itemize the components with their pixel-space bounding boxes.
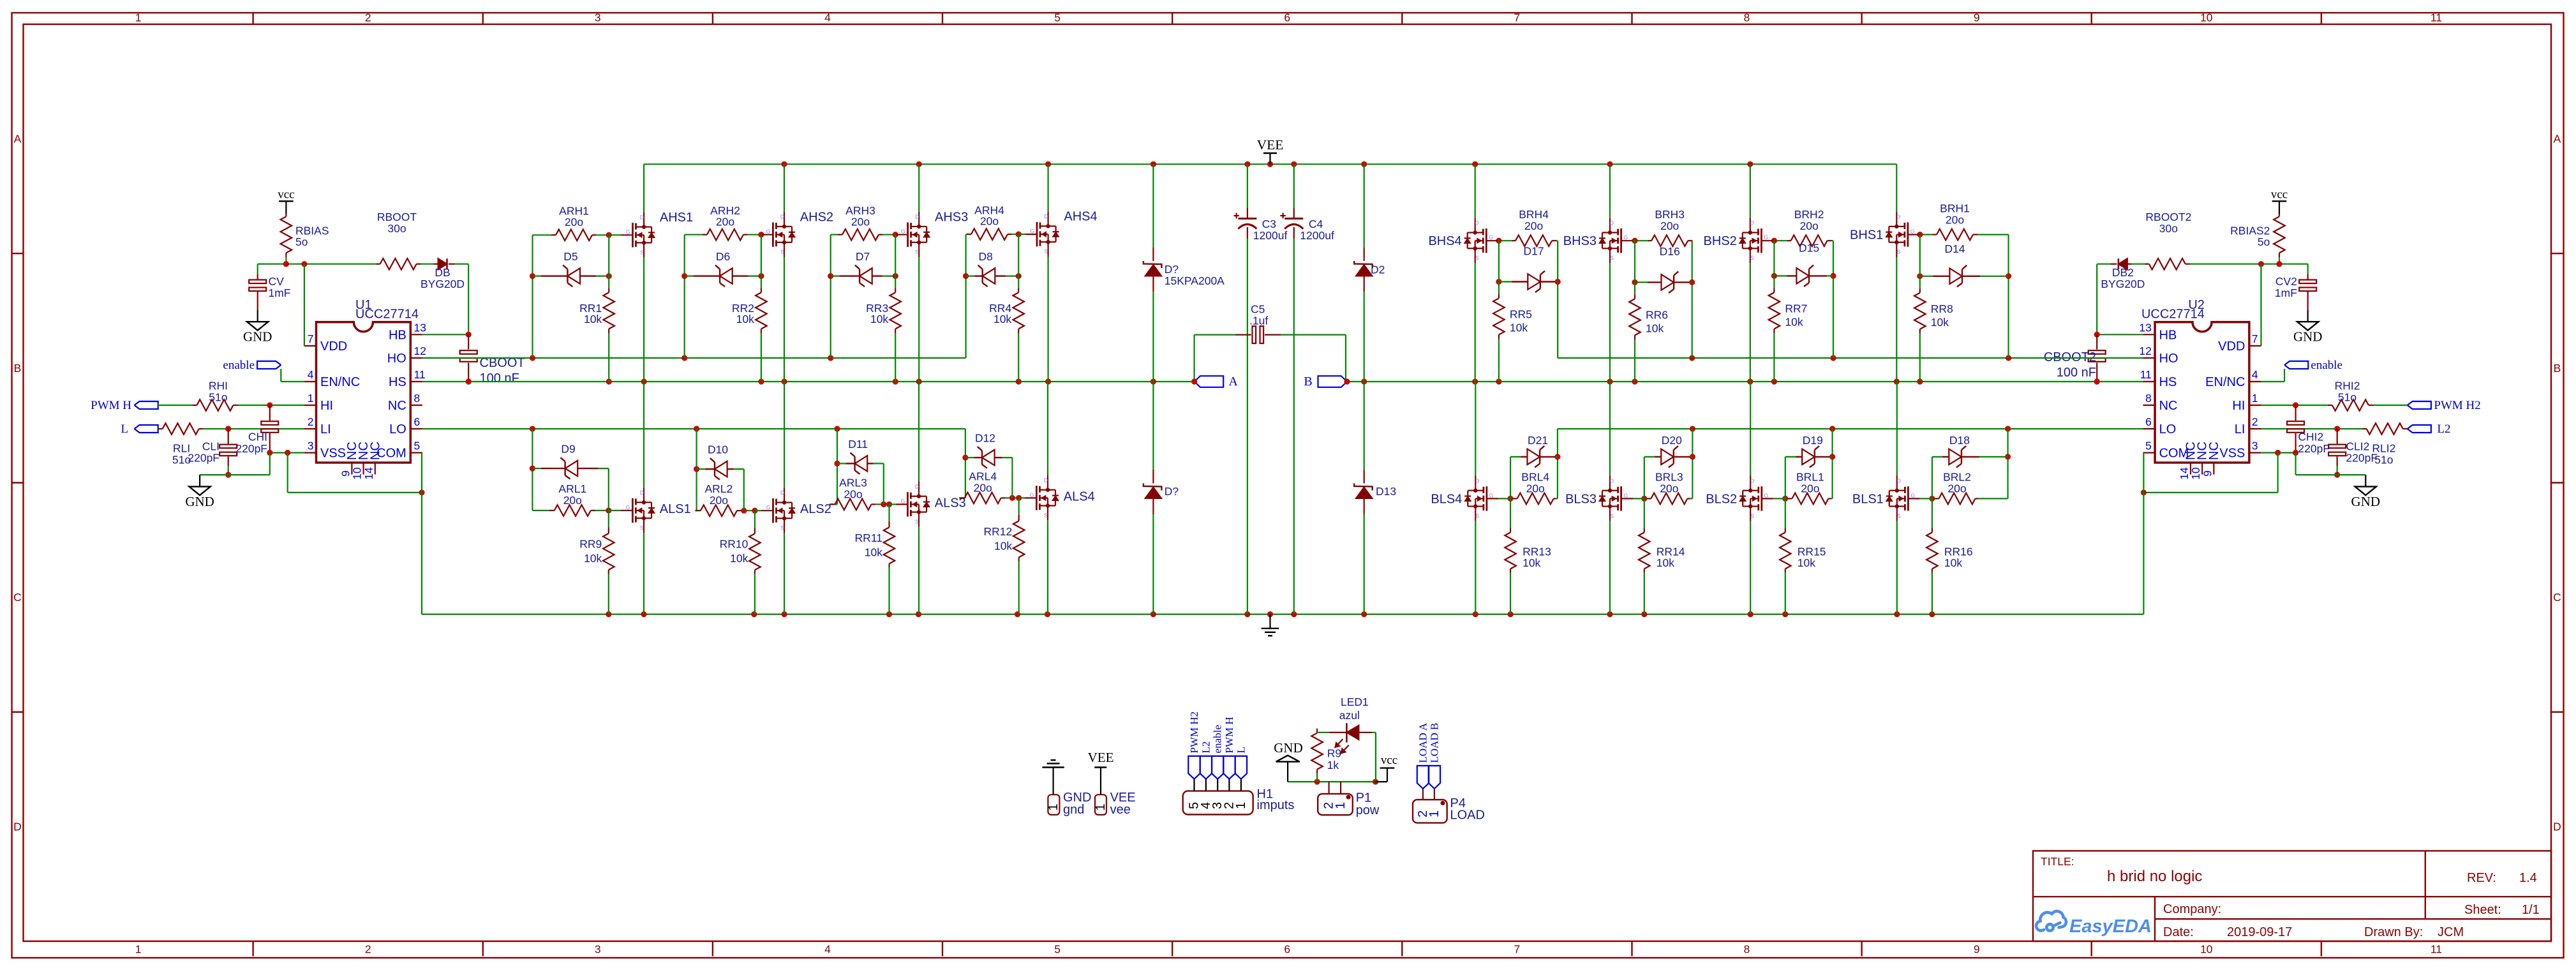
- svg-text:UCC27714: UCC27714: [2141, 308, 2205, 322]
- svg-text:G: G: [766, 504, 771, 510]
- svg-text:D: D: [915, 483, 919, 489]
- svg-text:10k: 10k: [1944, 556, 1962, 569]
- svg-text:1.4: 1.4: [2519, 871, 2537, 885]
- svg-text:RR11: RR11: [855, 532, 882, 544]
- svg-text:vcc: vcc: [1381, 754, 1397, 767]
- svg-text:10k: 10k: [1657, 556, 1674, 569]
- svg-text:C3: C3: [1262, 218, 1276, 230]
- svg-text:9: 9: [339, 470, 352, 477]
- svg-text:1: 1: [1334, 802, 1348, 809]
- svg-text:EN/NC: EN/NC: [2205, 375, 2245, 389]
- svg-text:GND: GND: [2351, 494, 2381, 509]
- svg-text:ALS2: ALS2: [800, 502, 831, 516]
- svg-text:azul: azul: [1339, 709, 1360, 722]
- svg-text:B: B: [2554, 362, 2561, 375]
- svg-text:G: G: [1489, 234, 1493, 241]
- svg-text:4: 4: [824, 943, 831, 956]
- svg-text:D: D: [2553, 820, 2561, 833]
- svg-text:220pF: 220pF: [188, 451, 220, 464]
- svg-text:G: G: [766, 228, 771, 235]
- svg-text:D5: D5: [563, 250, 577, 263]
- svg-text:2019-09-17: 2019-09-17: [2227, 925, 2292, 939]
- svg-text:D: D: [640, 489, 644, 496]
- svg-text:DB: DB: [435, 266, 450, 279]
- svg-text:S: S: [915, 249, 919, 255]
- svg-text:S: S: [1045, 248, 1048, 255]
- svg-text:RBOOT: RBOOT: [377, 211, 417, 223]
- svg-text:14: 14: [362, 467, 375, 480]
- svg-text:D: D: [1475, 477, 1479, 484]
- svg-text:L2: L2: [1200, 741, 1212, 754]
- svg-text:20o: 20o: [1947, 482, 1966, 495]
- svg-text:D7: D7: [856, 250, 870, 263]
- svg-text:13: 13: [2139, 321, 2151, 334]
- svg-text:D16: D16: [1660, 245, 1680, 258]
- svg-text:D: D: [780, 489, 784, 496]
- svg-text:1k: 1k: [1327, 759, 1339, 771]
- svg-text:enable: enable: [2311, 359, 2342, 372]
- svg-text:20o: 20o: [563, 494, 582, 507]
- svg-text:S: S: [640, 525, 644, 531]
- svg-text:HS: HS: [389, 375, 406, 389]
- svg-text:10k: 10k: [1646, 322, 1664, 334]
- svg-text:G: G: [1764, 492, 1769, 498]
- svg-text:C4: C4: [1309, 218, 1323, 230]
- svg-text:LOAD B: LOAD B: [1428, 723, 1440, 763]
- svg-text:D: D: [1610, 220, 1614, 226]
- svg-text:1: 1: [1046, 803, 1061, 810]
- svg-text:10: 10: [351, 467, 364, 480]
- svg-text:CHI: CHI: [248, 431, 267, 443]
- svg-text:10k: 10k: [584, 313, 602, 325]
- svg-text:Company:: Company:: [2163, 902, 2221, 916]
- svg-text:VSS: VSS: [320, 447, 346, 461]
- svg-text:PWM H: PWM H: [1223, 717, 1235, 753]
- svg-text:8: 8: [1744, 11, 1750, 24]
- svg-text:L: L: [1235, 747, 1247, 753]
- svg-text:S: S: [1897, 512, 1901, 519]
- svg-text:11: 11: [2140, 368, 2152, 381]
- svg-text:9: 9: [1974, 943, 1980, 956]
- svg-text:13: 13: [414, 321, 426, 334]
- svg-text:1: 1: [1094, 803, 1108, 810]
- svg-text:D17: D17: [1524, 244, 1544, 257]
- svg-text:D11: D11: [848, 438, 868, 450]
- svg-text:15KPA200A: 15KPA200A: [1165, 274, 1225, 287]
- svg-text:R9: R9: [1327, 747, 1341, 760]
- svg-text:BRH3: BRH3: [1655, 208, 1685, 221]
- svg-text:LOAD: LOAD: [1450, 808, 1485, 823]
- svg-text:1: 1: [1234, 802, 1248, 809]
- svg-text:20o: 20o: [565, 216, 583, 228]
- svg-text:RR7: RR7: [1785, 302, 1807, 315]
- svg-text:RR12: RR12: [983, 525, 1012, 538]
- svg-text:S: S: [1610, 512, 1614, 519]
- svg-text:D9: D9: [561, 443, 575, 456]
- svg-text:G: G: [1910, 228, 1915, 235]
- svg-text:D18: D18: [1949, 434, 1970, 447]
- svg-text:A: A: [2554, 133, 2561, 145]
- svg-text:D14: D14: [1944, 242, 1965, 255]
- svg-text:1mF: 1mF: [2275, 287, 2297, 299]
- svg-text:20o: 20o: [1946, 214, 1964, 227]
- svg-text:20o: 20o: [1660, 220, 1679, 232]
- svg-text:HI: HI: [320, 399, 333, 413]
- svg-text:7: 7: [1514, 943, 1521, 956]
- svg-text:1200uf: 1200uf: [1300, 229, 1334, 242]
- svg-text:LED1: LED1: [1341, 696, 1369, 708]
- svg-text:10k: 10k: [584, 552, 602, 565]
- svg-text:10k: 10k: [994, 313, 1011, 325]
- svg-text:20o: 20o: [1524, 220, 1543, 232]
- svg-text:3: 3: [595, 11, 601, 24]
- svg-text:8: 8: [1744, 943, 1750, 956]
- svg-text:RR8: RR8: [1931, 302, 1953, 315]
- svg-text:5o: 5o: [295, 235, 308, 248]
- svg-text:G: G: [1764, 234, 1768, 241]
- svg-text:S: S: [1475, 512, 1479, 519]
- svg-text:20o: 20o: [980, 215, 999, 228]
- svg-text:1200uf: 1200uf: [1253, 229, 1288, 242]
- svg-text:RBOOT2: RBOOT2: [2145, 211, 2191, 223]
- svg-text:D8: D8: [979, 250, 993, 263]
- svg-text:BRH4: BRH4: [1519, 208, 1549, 221]
- svg-text:AHS3: AHS3: [935, 210, 968, 224]
- svg-text:7: 7: [1514, 11, 1521, 24]
- svg-text:D: D: [1896, 214, 1900, 220]
- svg-text:D6: D6: [716, 250, 730, 263]
- svg-text:CHI2: CHI2: [2298, 431, 2323, 443]
- svg-text:S: S: [1044, 512, 1048, 518]
- svg-text:20o: 20o: [974, 481, 992, 494]
- svg-text:5: 5: [414, 440, 421, 452]
- svg-text:20o: 20o: [1801, 482, 1819, 495]
- svg-text:20o: 20o: [851, 215, 870, 228]
- svg-text:LOAD A: LOAD A: [1417, 722, 1429, 763]
- svg-text:10k: 10k: [1785, 315, 1803, 328]
- svg-text:2: 2: [365, 943, 371, 956]
- svg-text:C: C: [2553, 591, 2561, 604]
- svg-text:PWM H2: PWM H2: [1188, 711, 1200, 754]
- svg-text:4: 4: [824, 11, 831, 24]
- svg-text:TITLE:: TITLE:: [2041, 855, 2074, 868]
- svg-text:ARL4: ARL4: [969, 470, 997, 482]
- svg-text:51o: 51o: [2338, 391, 2356, 403]
- svg-text:7: 7: [2252, 332, 2258, 345]
- svg-text:RR6: RR6: [1646, 308, 1668, 321]
- svg-text:1/1: 1/1: [2522, 903, 2540, 917]
- svg-text:NC: NC: [2207, 442, 2221, 460]
- svg-text:HB: HB: [389, 328, 406, 342]
- svg-text:8: 8: [2145, 392, 2152, 405]
- svg-text:HS: HS: [2159, 375, 2177, 389]
- svg-text:30o: 30o: [2159, 222, 2178, 235]
- svg-text:B: B: [1304, 375, 1312, 389]
- svg-text:BRH1: BRH1: [1940, 202, 1970, 215]
- svg-text:20o: 20o: [710, 494, 728, 507]
- svg-text:G: G: [901, 228, 905, 235]
- svg-text:GND: GND: [2293, 329, 2323, 345]
- svg-text:GND: GND: [243, 329, 272, 345]
- svg-text:ARL1: ARL1: [558, 482, 586, 495]
- svg-text:G: G: [1030, 228, 1034, 234]
- svg-text:BRH2: BRH2: [1794, 208, 1824, 221]
- svg-text:11: 11: [414, 368, 426, 381]
- svg-text:S: S: [1750, 512, 1754, 519]
- svg-text:30o: 30o: [387, 222, 406, 235]
- svg-text:D12: D12: [975, 432, 995, 445]
- svg-text:8: 8: [414, 392, 421, 405]
- svg-text:Sheet:: Sheet:: [2464, 903, 2501, 917]
- svg-text:11: 11: [2431, 11, 2442, 24]
- svg-text:10k: 10k: [994, 539, 1012, 552]
- svg-text:6: 6: [1284, 943, 1290, 956]
- svg-text:D: D: [1610, 477, 1614, 484]
- svg-text:6: 6: [414, 415, 421, 428]
- svg-text:HO: HO: [387, 352, 406, 366]
- svg-text:BHS1: BHS1: [1850, 228, 1883, 242]
- svg-text:S: S: [1475, 255, 1479, 261]
- svg-text:NC: NC: [368, 442, 382, 460]
- svg-text:BRL1: BRL1: [1796, 470, 1824, 483]
- svg-text:11: 11: [2431, 943, 2442, 956]
- svg-text:LO: LO: [389, 422, 406, 436]
- svg-text:VSS: VSS: [2219, 447, 2245, 461]
- svg-text:h brid no logic: h brid no logic: [2107, 868, 2202, 885]
- svg-text:10: 10: [2189, 467, 2202, 480]
- svg-text:G: G: [626, 504, 630, 510]
- svg-text:1: 1: [2252, 392, 2258, 405]
- svg-text:14: 14: [2178, 467, 2191, 480]
- svg-text:CV2: CV2: [2275, 275, 2297, 288]
- svg-text:51o: 51o: [209, 391, 227, 403]
- svg-text:9: 9: [2201, 470, 2214, 477]
- svg-text:ARL3: ARL3: [839, 476, 867, 489]
- svg-text:220pF: 220pF: [2298, 442, 2330, 455]
- svg-text:AHS2: AHS2: [800, 210, 833, 224]
- svg-text:10k: 10k: [1798, 556, 1815, 569]
- svg-text:vee: vee: [1110, 803, 1131, 817]
- svg-text:20o: 20o: [1526, 482, 1545, 495]
- svg-text:LI: LI: [320, 422, 331, 436]
- svg-text:10k: 10k: [1523, 556, 1540, 569]
- svg-text:5: 5: [1054, 943, 1061, 956]
- svg-text:3: 3: [308, 440, 314, 452]
- svg-text:VDD: VDD: [2218, 339, 2245, 354]
- svg-text:D: D: [1045, 213, 1048, 220]
- svg-text:D21: D21: [1528, 434, 1548, 447]
- svg-text:imputs: imputs: [1257, 798, 1295, 812]
- svg-text:VDD: VDD: [320, 339, 347, 354]
- svg-text:1: 1: [135, 11, 142, 24]
- svg-text:S: S: [915, 518, 919, 525]
- svg-text:S: S: [780, 525, 784, 531]
- svg-text:10k: 10k: [1931, 316, 1949, 329]
- svg-text:2: 2: [365, 11, 371, 24]
- svg-text:G: G: [1489, 492, 1494, 498]
- svg-text:JCM: JCM: [2438, 925, 2464, 939]
- svg-text:S: S: [1610, 255, 1614, 261]
- svg-text:D: D: [1750, 220, 1754, 226]
- svg-text:100 nF: 100 nF: [2057, 366, 2096, 380]
- svg-text:enable: enable: [1212, 725, 1224, 753]
- svg-text:BLS2: BLS2: [1706, 492, 1737, 506]
- svg-text:Drawn By:: Drawn By:: [2364, 925, 2423, 939]
- svg-text:20o: 20o: [1799, 220, 1818, 232]
- svg-text:D2: D2: [1371, 264, 1385, 276]
- svg-text:A: A: [1228, 375, 1238, 389]
- svg-text:vcc: vcc: [278, 188, 294, 201]
- svg-text:HB: HB: [2159, 328, 2177, 342]
- svg-text:5o: 5o: [2258, 235, 2270, 248]
- svg-text:VEE: VEE: [1088, 750, 1114, 765]
- svg-text:D: D: [640, 214, 644, 220]
- svg-text:PWM H: PWM H: [91, 399, 131, 412]
- svg-text:LO: LO: [2159, 422, 2177, 436]
- svg-text:D15: D15: [1799, 242, 1819, 255]
- svg-text:6: 6: [1284, 11, 1290, 24]
- svg-text:Date:: Date:: [2163, 925, 2194, 939]
- svg-text:G: G: [1624, 492, 1628, 498]
- svg-text:ARL2: ARL2: [705, 482, 733, 495]
- svg-text:HO: HO: [2159, 352, 2178, 366]
- svg-text:BYG20D: BYG20D: [421, 278, 465, 290]
- svg-text:12: 12: [414, 345, 426, 357]
- svg-text:B: B: [14, 362, 22, 375]
- svg-text:G: G: [626, 228, 630, 235]
- svg-text:CV: CV: [269, 275, 285, 288]
- svg-text:D19: D19: [1803, 434, 1823, 447]
- svg-text:BRL3: BRL3: [1655, 470, 1683, 483]
- svg-text:D: D: [1750, 477, 1754, 484]
- svg-text:4: 4: [308, 368, 314, 381]
- svg-text:GND: GND: [1274, 740, 1303, 756]
- svg-text:20o: 20o: [1660, 482, 1678, 495]
- svg-text:220pF: 220pF: [235, 442, 267, 455]
- svg-text:L2: L2: [2437, 422, 2450, 436]
- svg-text:D13: D13: [1376, 485, 1396, 498]
- svg-text:2: 2: [308, 415, 314, 428]
- svg-text:PWM H2: PWM H2: [2434, 399, 2480, 412]
- svg-text:UCC27714: UCC27714: [355, 308, 419, 322]
- svg-text:C5: C5: [1251, 303, 1265, 316]
- svg-text:G: G: [1030, 491, 1034, 498]
- svg-text:10k: 10k: [1510, 322, 1528, 334]
- svg-text:D20: D20: [1662, 434, 1682, 447]
- svg-text:6: 6: [2145, 415, 2152, 428]
- svg-text:10: 10: [2200, 943, 2213, 956]
- svg-text:3: 3: [2252, 440, 2258, 452]
- svg-text:D: D: [13, 820, 22, 833]
- svg-text:G: G: [1624, 234, 1628, 241]
- svg-text:1mF: 1mF: [269, 287, 291, 299]
- svg-text:BRL4: BRL4: [1521, 470, 1549, 483]
- svg-text:10k: 10k: [865, 546, 882, 558]
- svg-text:vcc: vcc: [2271, 188, 2288, 201]
- svg-text:BYG20D: BYG20D: [2101, 278, 2145, 290]
- svg-text:D: D: [1475, 220, 1479, 226]
- svg-text:5: 5: [1054, 11, 1061, 24]
- svg-text:BLS4: BLS4: [1431, 492, 1462, 506]
- svg-text:D10: D10: [708, 443, 728, 456]
- svg-text:7: 7: [308, 332, 314, 345]
- svg-text:220pF: 220pF: [2346, 451, 2378, 464]
- svg-text:A: A: [14, 133, 22, 145]
- svg-text:BHS3: BHS3: [1563, 234, 1597, 248]
- svg-text:4: 4: [2252, 368, 2258, 381]
- svg-text:RR5: RR5: [1510, 308, 1532, 321]
- svg-text:G: G: [901, 498, 905, 504]
- svg-text:C: C: [13, 591, 22, 604]
- svg-text:BHS4: BHS4: [1428, 234, 1461, 248]
- svg-text:EN/NC: EN/NC: [320, 375, 360, 389]
- svg-text:D: D: [1897, 477, 1901, 484]
- svg-text:REV:: REV:: [2467, 871, 2496, 885]
- svg-text:100 nF: 100 nF: [480, 371, 519, 385]
- svg-text:BLS3: BLS3: [1565, 492, 1597, 506]
- svg-text:S: S: [1750, 255, 1754, 261]
- svg-text:D: D: [1044, 477, 1048, 483]
- svg-text:NC: NC: [388, 399, 406, 413]
- svg-text:HI: HI: [2232, 399, 2245, 413]
- svg-text:2: 2: [2252, 415, 2258, 428]
- svg-text:NC: NC: [2159, 399, 2178, 413]
- svg-text:10: 10: [2200, 11, 2213, 24]
- svg-text:20o: 20o: [716, 215, 734, 228]
- svg-text:gnd: gnd: [1063, 803, 1084, 817]
- svg-text:BHS2: BHS2: [1704, 234, 1737, 248]
- svg-text:D?: D?: [1165, 263, 1179, 276]
- svg-text:D: D: [780, 214, 784, 220]
- svg-text:BLS1: BLS1: [1852, 492, 1884, 506]
- svg-text:AHS1: AHS1: [660, 211, 693, 225]
- svg-text:LI: LI: [2235, 422, 2245, 436]
- svg-text:RR10: RR10: [720, 538, 748, 551]
- svg-text:S: S: [1896, 249, 1900, 255]
- svg-text:RR9: RR9: [579, 538, 602, 551]
- svg-text:10k: 10k: [736, 313, 754, 325]
- svg-text:10k: 10k: [730, 552, 748, 565]
- svg-text:enable: enable: [223, 359, 255, 372]
- svg-text:10k: 10k: [870, 313, 888, 325]
- svg-text:VEE: VEE: [1257, 137, 1284, 153]
- svg-text:AHS4: AHS4: [1064, 210, 1097, 224]
- svg-text:S: S: [640, 249, 644, 255]
- svg-text:9: 9: [1974, 11, 1980, 24]
- svg-text:1: 1: [308, 392, 314, 405]
- svg-text:D: D: [915, 214, 919, 220]
- svg-text:20o: 20o: [844, 488, 862, 500]
- svg-text:ALS4: ALS4: [1064, 489, 1095, 503]
- svg-text:1: 1: [135, 943, 142, 956]
- svg-text:G: G: [1910, 492, 1915, 498]
- svg-text:5: 5: [2145, 440, 2152, 452]
- svg-text:L: L: [121, 422, 128, 436]
- svg-text:D?: D?: [1165, 485, 1179, 498]
- svg-text:EasyEDA: EasyEDA: [2069, 916, 2152, 937]
- svg-text:DB2: DB2: [2112, 266, 2134, 279]
- svg-text:S: S: [780, 249, 784, 255]
- svg-text:BRL2: BRL2: [1943, 470, 1971, 483]
- svg-text:pow: pow: [1356, 803, 1380, 817]
- svg-text:12: 12: [2139, 345, 2151, 357]
- svg-text:ALS1: ALS1: [660, 502, 691, 516]
- svg-text:GND: GND: [185, 494, 214, 509]
- svg-text:.1uf: .1uf: [1249, 315, 1268, 327]
- svg-text:3: 3: [595, 943, 601, 956]
- svg-text:1: 1: [1427, 810, 1441, 817]
